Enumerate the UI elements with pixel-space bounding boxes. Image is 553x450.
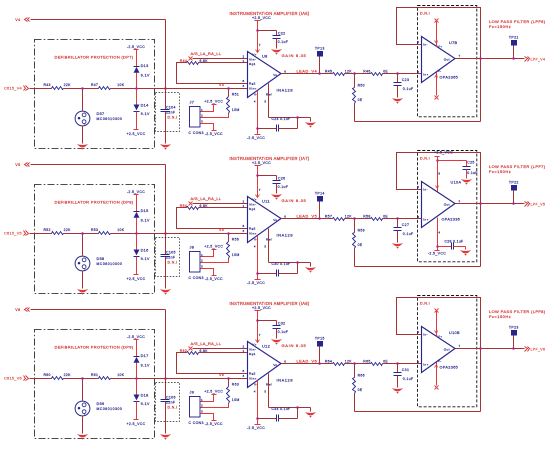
svg-text:-2.5_VCC: -2.5_VCC — [205, 422, 223, 426]
svg-text:-2.5_VCC: -2.5_VCC — [428, 252, 446, 256]
svg-text:C615_V4: C615_V4 — [4, 87, 22, 91]
svg-text:R56: R56 — [232, 238, 239, 242]
svg-text:8: 8 — [243, 224, 245, 228]
svg-text:A/G_LA_RA_LL: A/G_LA_RA_LL — [191, 51, 222, 56]
svg-text:LPF_V6: LPF_V6 — [531, 348, 546, 352]
svg-text:2: 2 — [201, 114, 203, 118]
svg-text:22K: 22K — [64, 373, 71, 377]
svg-text:6: 6 — [284, 360, 286, 364]
svg-text:22K: 22K — [64, 228, 71, 232]
svg-text:In+: In+ — [423, 218, 428, 222]
svg-text:Rg2: Rg2 — [249, 371, 256, 375]
svg-text:7: 7 — [459, 344, 461, 348]
svg-text:3: 3 — [243, 374, 245, 378]
svg-text:7: 7 — [259, 43, 261, 47]
svg-text:3: 3 — [201, 264, 203, 268]
svg-text:1: 1 — [201, 398, 203, 402]
svg-text:-2.5_VCC: -2.5_VCC — [127, 335, 145, 339]
svg-text:LPF_V5: LPF_V5 — [531, 203, 546, 207]
svg-text:R52: R52 — [44, 228, 51, 232]
svg-text:10K: 10K — [117, 228, 124, 232]
svg-text:A/G_LA_RA_LL: A/G_LA_RA_LL — [191, 341, 222, 346]
svg-text:7: 7 — [459, 54, 461, 58]
svg-text:MC08010300: MC08010300 — [97, 407, 123, 411]
svg-text:LEAD_V6: LEAD_V6 — [297, 359, 318, 364]
svg-text:C32: C32 — [278, 321, 285, 325]
svg-text:0.1uF: 0.1uF — [403, 377, 414, 381]
svg-text:Vo: Vo — [273, 218, 277, 222]
svg-text:U10A: U10A — [451, 180, 462, 184]
svg-text:3: 3 — [201, 409, 203, 413]
svg-text:1: 1 — [201, 253, 203, 257]
svg-text:OPA2365: OPA2365 — [440, 75, 459, 79]
svg-text:R65: R65 — [363, 360, 370, 364]
svg-text:Rg2: Rg2 — [249, 81, 256, 85]
svg-text:R53: R53 — [91, 228, 98, 232]
svg-text:-2.5_VCC: -2.5_VCC — [247, 281, 265, 285]
svg-text:0.1uF: 0.1uF — [278, 185, 289, 189]
svg-text:J7: J7 — [190, 101, 195, 105]
svg-text:D16: D16 — [141, 249, 149, 253]
svg-text:+2.5_VCC: +2.5_VCC — [252, 161, 271, 165]
svg-text:U7B: U7B — [449, 41, 458, 45]
svg-text:3: 3 — [417, 215, 419, 219]
svg-text:Vo: Vo — [273, 73, 277, 77]
svg-text:4: 4 — [254, 99, 256, 103]
svg-text:R57: R57 — [325, 215, 332, 219]
svg-text:-2.5_VCC: -2.5_VCC — [205, 277, 223, 281]
svg-text:V+: V+ — [438, 334, 443, 338]
svg-text:R61: R61 — [91, 373, 98, 377]
svg-text:C28 0.1uF: C28 0.1uF — [445, 239, 464, 243]
svg-text:C24 0.1uF: C24 0.1uF — [272, 117, 291, 121]
svg-text:+2.5_VCC: +2.5_VCC — [434, 150, 453, 154]
svg-text:D.N.I: D.N.I — [420, 301, 430, 305]
svg-text:D.N.I: D.N.I — [420, 11, 430, 15]
svg-text:Rg2: Rg2 — [249, 226, 256, 230]
svg-text:R47: R47 — [91, 83, 98, 87]
svg-text:22nF: 22nF — [166, 111, 175, 115]
svg-text:4: 4 — [438, 230, 440, 234]
svg-text:C CON3: C CON3 — [189, 421, 204, 425]
svg-text:U11: U11 — [262, 199, 270, 204]
svg-text:2: 2 — [201, 404, 203, 408]
svg-text:TP13: TP13 — [315, 46, 325, 50]
svg-text:VIn-: VIn- — [249, 202, 256, 206]
svg-text:TP15: TP15 — [315, 336, 325, 340]
svg-text:LEAD_V5: LEAD_V5 — [297, 214, 318, 219]
svg-text:V+: V+ — [252, 53, 257, 57]
svg-text:C106: C106 — [166, 395, 176, 399]
svg-text:V+: V+ — [438, 44, 443, 48]
svg-text:22K: 22K — [64, 83, 71, 87]
svg-text:In+: In+ — [423, 73, 428, 77]
svg-text:OPA2336: OPA2336 — [442, 218, 461, 222]
svg-text:2: 2 — [243, 55, 245, 59]
svg-text:MC08010300: MC08010300 — [97, 262, 123, 266]
svg-text:DEFIBRILLATOR PROTECTION (DP9): DEFIBRILLATOR PROTECTION (DP9) — [55, 345, 134, 350]
svg-text:-2.5_VCC: -2.5_VCC — [247, 426, 265, 430]
svg-text:In-: In- — [423, 333, 428, 337]
svg-text:5: 5 — [264, 389, 266, 393]
svg-text:A/G_LA_RA_LL: A/G_LA_RA_LL — [191, 196, 222, 201]
svg-text:MC08010300: MC08010300 — [97, 117, 123, 121]
svg-text:R66: R66 — [358, 374, 365, 378]
svg-text:4: 4 — [254, 389, 256, 393]
svg-text:C30 0.1uF: C30 0.1uF — [272, 262, 291, 266]
svg-text:-2.5_VCC: -2.5_VCC — [247, 136, 265, 140]
svg-text:C27: C27 — [402, 223, 409, 227]
svg-text:+2.5_VCC: +2.5_VCC — [126, 422, 145, 426]
svg-text:DEFIBRILLATOR PROTECTION (DP8): DEFIBRILLATOR PROTECTION (DP8) — [55, 200, 134, 205]
svg-text:INA128: INA128 — [277, 233, 294, 238]
svg-text:R45: R45 — [325, 70, 332, 74]
svg-text:D13: D13 — [141, 64, 149, 68]
svg-text:D58: D58 — [97, 257, 105, 261]
svg-text:C105: C105 — [166, 250, 176, 254]
svg-text:C25: C25 — [467, 161, 474, 165]
svg-text:C23: C23 — [402, 78, 409, 82]
svg-text:+2.5_VCC: +2.5_VCC — [126, 277, 145, 281]
svg-text:2: 2 — [243, 200, 245, 204]
svg-text:-2.5_VCC: -2.5_VCC — [127, 45, 145, 49]
svg-text:R50: R50 — [358, 84, 365, 88]
svg-text:GAIN 8.35: GAIN 8.35 — [282, 53, 307, 58]
svg-text:9.1V: 9.1V — [141, 112, 150, 116]
svg-text:GAIN 8.35: GAIN 8.35 — [282, 343, 307, 348]
svg-text:C26: C26 — [278, 176, 285, 180]
svg-text:D15: D15 — [141, 209, 149, 213]
svg-text:D17: D17 — [141, 354, 149, 358]
svg-text:10K: 10K — [117, 83, 124, 87]
svg-text:C615_V5: C615_V5 — [4, 232, 22, 236]
svg-text:5: 5 — [417, 360, 419, 364]
svg-text:Fc=150Hz: Fc=150Hz — [489, 314, 511, 319]
svg-text:Rg1: Rg1 — [249, 207, 256, 211]
svg-text:5: 5 — [264, 99, 266, 103]
svg-text:VIn+: VIn+ — [249, 86, 257, 90]
svg-text:+2.5_VCC: +2.5_VCC — [252, 16, 271, 20]
svg-text:R58: R58 — [363, 215, 370, 219]
svg-text:9.1V: 9.1V — [141, 257, 150, 261]
svg-text:Fc=150Hz: Fc=150Hz — [489, 24, 511, 29]
svg-text:R46: R46 — [363, 70, 370, 74]
svg-text:V-: V- — [438, 69, 442, 73]
svg-text:D14: D14 — [141, 104, 149, 108]
svg-text:10M: 10M — [232, 108, 240, 112]
svg-text:0.1uF: 0.1uF — [403, 232, 414, 236]
svg-text:9.1V: 9.1V — [141, 364, 150, 368]
svg-text:V5: V5 — [15, 163, 20, 167]
svg-text:Out: Out — [444, 57, 450, 61]
svg-text:0E: 0E — [358, 243, 363, 247]
svg-text:7: 7 — [259, 333, 261, 337]
svg-text:INA128: INA128 — [277, 378, 294, 383]
svg-text:Fc=150Hz: Fc=150Hz — [489, 169, 511, 174]
svg-text:1: 1 — [243, 204, 245, 208]
svg-text:2: 2 — [243, 345, 245, 349]
svg-text:V4: V4 — [15, 18, 20, 22]
svg-text:-2.5_VCC: -2.5_VCC — [205, 132, 223, 136]
svg-text:V5: V5 — [219, 228, 224, 232]
svg-text:C615_V6: C615_V6 — [4, 377, 22, 381]
svg-text:Rg1: Rg1 — [249, 62, 256, 66]
svg-text:8: 8 — [438, 172, 440, 176]
svg-text:4: 4 — [254, 244, 256, 248]
svg-text:J9: J9 — [190, 391, 195, 395]
svg-text:3: 3 — [243, 84, 245, 88]
svg-text:D18: D18 — [141, 394, 149, 398]
svg-text:V+: V+ — [252, 198, 257, 202]
svg-text:V6: V6 — [219, 373, 224, 377]
svg-text:R63: R63 — [232, 383, 239, 387]
svg-text:+2.5_VCC: +2.5_VCC — [204, 245, 223, 249]
svg-text:2: 2 — [201, 259, 203, 263]
svg-text:GAIN 8.35: GAIN 8.35 — [282, 198, 307, 203]
svg-text:D59: D59 — [97, 402, 105, 406]
svg-text:C104: C104 — [166, 105, 176, 109]
svg-text:1: 1 — [243, 59, 245, 63]
svg-text:TP23: TP23 — [509, 326, 519, 330]
svg-text:C CON3: C CON3 — [189, 131, 204, 135]
svg-text:V6: V6 — [15, 308, 20, 312]
svg-text:8: 8 — [243, 369, 245, 373]
svg-text:V+: V+ — [252, 343, 257, 347]
svg-text:8: 8 — [243, 79, 245, 83]
svg-text:LPF_V4: LPF_V4 — [531, 58, 546, 62]
svg-text:U10B: U10B — [449, 331, 460, 335]
svg-text:VIn+: VIn+ — [249, 376, 257, 380]
svg-text:22nF: 22nF — [166, 401, 175, 405]
svg-text:2: 2 — [417, 185, 419, 189]
svg-text:R64: R64 — [325, 360, 332, 364]
svg-text:R51: R51 — [232, 93, 239, 97]
svg-text:0E: 0E — [358, 98, 363, 102]
svg-text:10M: 10M — [232, 398, 240, 402]
svg-text:+2.5_VCC: +2.5_VCC — [252, 306, 271, 310]
svg-text:3: 3 — [243, 229, 245, 233]
svg-text:0.1uF: 0.1uF — [467, 171, 477, 175]
svg-text:U8: U8 — [262, 54, 268, 59]
svg-text:6: 6 — [417, 40, 419, 44]
svg-text:LEAD_V4: LEAD_V4 — [297, 69, 318, 74]
svg-text:C34 0.1uF: C34 0.1uF — [272, 407, 291, 411]
svg-text:10M: 10M — [232, 253, 240, 257]
svg-text:7: 7 — [259, 188, 261, 192]
svg-text:0E: 0E — [358, 388, 363, 392]
svg-text:C22: C22 — [278, 31, 285, 35]
svg-text:1: 1 — [201, 108, 203, 112]
svg-text:TP14: TP14 — [315, 191, 325, 195]
svg-text:D.N.I: D.N.I — [420, 156, 430, 160]
svg-text:5: 5 — [417, 70, 419, 74]
svg-text:9.1V: 9.1V — [141, 219, 150, 223]
svg-text:+2.5_VCC: +2.5_VCC — [126, 132, 145, 136]
svg-text:VIn-: VIn- — [249, 347, 256, 351]
svg-text:Rg1: Rg1 — [249, 352, 256, 356]
svg-text:D57: D57 — [97, 112, 105, 116]
svg-text:D.N.I: D.N.I — [168, 260, 178, 264]
svg-text:3: 3 — [201, 119, 203, 123]
svg-text:10K: 10K — [117, 373, 124, 377]
svg-text:TP21: TP21 — [509, 36, 519, 40]
svg-text:R43: R43 — [44, 83, 51, 87]
svg-text:6: 6 — [284, 70, 286, 74]
svg-text:TP22: TP22 — [509, 181, 519, 185]
svg-text:In-: In- — [423, 188, 428, 192]
svg-text:0.1uF: 0.1uF — [278, 330, 289, 334]
svg-text:9.1V: 9.1V — [141, 74, 150, 78]
svg-text:0.1uF: 0.1uF — [403, 87, 414, 91]
svg-text:OPA2365: OPA2365 — [440, 365, 459, 369]
svg-text:Vo: Vo — [273, 363, 277, 367]
svg-text:5: 5 — [264, 244, 266, 248]
svg-text:9.1V: 9.1V — [141, 402, 150, 406]
svg-text:Out: Out — [444, 347, 450, 351]
svg-text:+2.5_VCC: +2.5_VCC — [204, 100, 223, 104]
svg-text:INA128: INA128 — [277, 88, 294, 93]
svg-text:D.N.I: D.N.I — [168, 405, 178, 409]
svg-text:R60: R60 — [44, 373, 51, 377]
svg-text:1: 1 — [243, 349, 245, 353]
svg-text:D.N.I: D.N.I — [168, 115, 178, 119]
svg-text:U12: U12 — [262, 344, 270, 349]
svg-text:0.1uF: 0.1uF — [278, 40, 289, 44]
svg-text:DEFIBRILLATOR PROTECTION (DP7): DEFIBRILLATOR PROTECTION (DP7) — [55, 55, 134, 60]
svg-text:C CON3: C CON3 — [189, 276, 204, 280]
svg-text:C31: C31 — [402, 368, 409, 372]
svg-text:6: 6 — [284, 215, 286, 219]
svg-text:+2.5_VCC: +2.5_VCC — [204, 390, 223, 394]
svg-text:V4: V4 — [219, 83, 224, 87]
svg-text:VIn+: VIn+ — [249, 231, 257, 235]
svg-text:VIn-: VIn- — [249, 57, 256, 61]
svg-text:J8: J8 — [190, 246, 195, 250]
svg-text:R59: R59 — [358, 229, 365, 233]
svg-text:1: 1 — [459, 199, 461, 203]
svg-text:V-: V- — [438, 359, 442, 363]
svg-text:-2.5_VCC: -2.5_VCC — [127, 190, 145, 194]
svg-text:In+: In+ — [423, 363, 428, 367]
svg-text:In-: In- — [423, 43, 428, 47]
svg-text:Out: Out — [444, 202, 450, 206]
svg-text:6: 6 — [417, 330, 419, 334]
svg-text:22nF: 22nF — [166, 256, 175, 260]
